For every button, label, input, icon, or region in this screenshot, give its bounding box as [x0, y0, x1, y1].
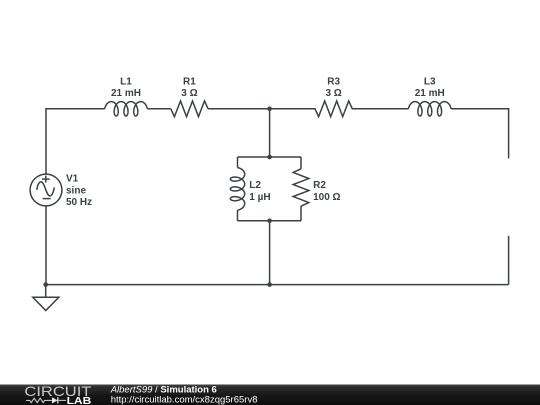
V1 plus sign [45, 176, 47, 183]
svg-text:V1: V1 [66, 174, 79, 185]
inductor L2 [230, 168, 244, 211]
V1 sine wave [37, 182, 55, 196]
wire right side below gap to bottom rail [508, 236, 510, 285]
wire loop bottom to bottom rail [269, 221, 271, 285]
logo circuit line with resistor and diode [26, 398, 66, 402]
wire V1 bottom to ground corner [45, 206, 47, 285]
svg-text:3 Ω: 3 Ω [325, 88, 341, 99]
junction dot ground corner [43, 282, 48, 287]
svg-text:R2: R2 [313, 180, 326, 191]
svg-text:L3: L3 [424, 76, 436, 87]
svg-text:3 Ω: 3 Ω [181, 88, 197, 99]
svg-text:R1: R1 [183, 76, 196, 87]
resistor R2 [293, 169, 309, 206]
ground [45, 285, 47, 298]
resistor R3 [315, 101, 352, 117]
footer bar [0, 385, 540, 405]
svg-text:L2: L2 [249, 180, 261, 191]
svg-text:1 µH: 1 µH [249, 192, 270, 203]
wire R3 to L3 [352, 108, 409, 110]
wire top-left: V1 top to L1 [46, 109, 105, 175]
wire loop bottom rail [238, 220, 302, 222]
svg-text:sine: sine [66, 185, 86, 196]
wire L1 to R1 [147, 108, 171, 110]
svg-text:LAB: LAB [67, 395, 92, 405]
svg-text:100 Ω: 100 Ω [313, 192, 340, 203]
svg-text:R3: R3 [327, 76, 340, 87]
wire L3 to top-right corner, down to gap [451, 109, 509, 159]
svg-text:50 Hz: 50 Hz [66, 197, 92, 208]
inductor L1 [105, 102, 148, 116]
junction dot loop top [267, 155, 272, 160]
wire node A to R3 [270, 108, 316, 110]
V1 minus sign [43, 198, 51, 200]
wire loop left stubs (L2 leads) [237, 157, 239, 168]
wire node A down to parallel loop top [269, 109, 271, 157]
svg-text:21 mH: 21 mH [415, 88, 445, 99]
junction dot bottom rail [267, 282, 272, 287]
wire bottom rail [46, 284, 509, 286]
svg-text:L1: L1 [120, 76, 132, 87]
junction dot loop bottom [267, 219, 272, 224]
node A junction dot (top) [267, 107, 272, 112]
svg-text:21 mH: 21 mH [111, 88, 141, 99]
svg-text:http://circuitlab.com/cx8zqg5r: http://circuitlab.com/cx8zqg5r65rv8 [111, 394, 258, 405]
voltage source V1 [30, 174, 62, 206]
logo diode [52, 397, 58, 403]
wire loop right stubs (R2 leads) [300, 157, 302, 169]
inductor L3 [408, 102, 451, 116]
wire loop top rail [238, 156, 302, 158]
wire R1 to node A [208, 108, 270, 110]
resistor R1 [171, 101, 208, 117]
